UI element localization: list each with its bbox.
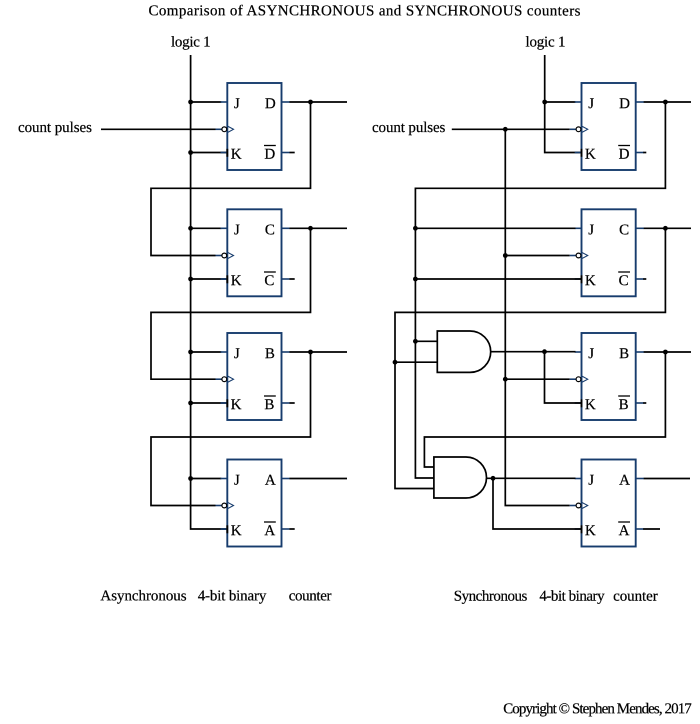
wire AND1 output to J of FF3 (right) <box>491 351 576 353</box>
wire feedback D output to FF2 clock (ripple) <box>151 102 311 256</box>
svg-text:A: A <box>264 523 275 539</box>
K terminal tick <box>581 149 583 157</box>
flip-flop FF1-async (JK, output D) <box>216 83 290 170</box>
clock inversion bubble <box>222 377 227 382</box>
wire count-pulses input (right counter) <box>452 128 570 130</box>
clock inversion bubble <box>576 377 581 382</box>
svg-text:K: K <box>585 273 596 289</box>
wire B output row 3 (right) <box>644 351 691 353</box>
junction logic1/K2 (left) <box>188 277 193 282</box>
wire C-bar output stub (right) <box>643 278 646 280</box>
svg-text:B: B <box>265 346 275 362</box>
K terminal tick <box>226 149 228 157</box>
svg-text:logic 1: logic 1 <box>171 35 211 51</box>
AND gate G2 (inputs B, D, C; drives J/K of FF4) <box>434 457 487 498</box>
flip-flop FF3-sync (JK, output B) <box>570 333 644 420</box>
clock edge chevron <box>582 252 588 259</box>
clock inversion bubble <box>576 503 581 508</box>
pin J stub <box>221 351 228 353</box>
wire C bus to AND1 lower input <box>395 361 438 363</box>
K terminal tick <box>226 399 228 407</box>
pin K stub <box>221 528 228 530</box>
svg-text:J: J <box>234 222 240 238</box>
junction clock rail row 3 <box>503 377 508 382</box>
svg-text:K: K <box>585 147 596 163</box>
svg-text:Copyright © Stephen Mendes, 20: Copyright © Stephen Mendes, 2017 <box>503 701 692 717</box>
clock edge chevron <box>227 376 233 383</box>
pin J stub <box>575 351 582 353</box>
pin K stub <box>575 152 582 154</box>
wire J input row 2 (left) <box>191 227 222 229</box>
wire AND2 output branch to K of FF4 <box>493 478 581 529</box>
pin C output stub <box>636 227 644 229</box>
pin J stub <box>575 227 582 229</box>
wire A-bar output stub (right) <box>643 528 660 530</box>
junction logic1/J2 (left) <box>188 226 193 231</box>
junction AND1 out / J3-K3 split <box>542 349 547 354</box>
pin K stub <box>221 152 228 154</box>
wire AND1 output branch to K of FF3 <box>545 352 582 403</box>
wire K input row 3 (left) <box>191 402 227 404</box>
clock edge chevron <box>582 126 588 133</box>
svg-text:logic 1: logic 1 <box>525 35 565 51</box>
svg-text:C: C <box>619 222 629 238</box>
svg-text:C: C <box>619 273 629 289</box>
wire D bus to AND1 upper input <box>415 340 437 342</box>
clock pin stub <box>570 505 577 507</box>
clock inversion bubble <box>222 253 227 258</box>
wire D-output feedback bus (right): down, left, down to AND2 middle input <box>415 102 665 478</box>
pin K stub <box>575 402 582 404</box>
svg-text:Asynchronous: Asynchronous <box>100 588 186 604</box>
svg-text:K: K <box>231 273 242 289</box>
svg-text:J: J <box>588 222 594 238</box>
pin D output stub <box>282 101 290 103</box>
pin J stub <box>221 227 228 229</box>
svg-text:B: B <box>619 346 629 362</box>
junction logic1/J1 (left) <box>188 100 193 105</box>
pin D-bar output stub <box>636 152 644 154</box>
svg-text:counter: counter <box>289 588 332 604</box>
svg-text:K: K <box>231 147 242 163</box>
svg-text:4-bit binary: 4-bit binary <box>539 589 605 605</box>
pin B-bar output stub <box>282 402 290 404</box>
wire K input row 2 (left) <box>191 278 227 280</box>
junction AND2 out / J4-K4 split <box>491 476 496 481</box>
junction C bus / AND1 <box>393 360 398 365</box>
wire logic-1 rail (right counter), bends into K of FF1 <box>545 55 581 153</box>
svg-text:D: D <box>619 147 630 163</box>
title <box>148 3 580 19</box>
wire clock rail (right counter), bends into clock of FF4 <box>505 129 569 505</box>
wire D bus to K of FF2 (right) <box>415 278 581 280</box>
flip-flop FF4-async (JK, output A) <box>216 460 290 547</box>
junction C output (left) <box>308 226 313 231</box>
pin C-bar output stub <box>636 278 644 280</box>
label Synchronous counter caption <box>454 589 658 605</box>
wire count-pulses input (left counter) <box>101 128 216 130</box>
pin K stub <box>221 402 228 404</box>
K terminal tick <box>581 399 583 407</box>
pin K stub <box>575 528 582 530</box>
svg-text:K: K <box>585 397 596 413</box>
wire B output row 3 (left) <box>290 351 348 353</box>
K terminal tick <box>581 275 583 283</box>
wire C-bar output stub (left) <box>290 278 295 280</box>
wire A-bar output stub (left) <box>290 528 295 530</box>
svg-text:A: A <box>619 523 630 539</box>
flip-flop FF1-sync (JK, output D) <box>570 83 644 170</box>
svg-text:K: K <box>231 523 242 539</box>
junction D output (right) <box>663 100 668 105</box>
pin B output stub <box>282 351 290 353</box>
junction D bus / K2 <box>413 277 418 282</box>
wire clock input FF2 (right) <box>505 255 569 257</box>
clock inversion bubble <box>222 503 227 508</box>
pin K stub <box>221 278 228 280</box>
junction logic1/K1 (left) <box>188 150 193 155</box>
junction logic1/J3 (left) <box>188 350 193 355</box>
junction C output (right) <box>663 226 668 231</box>
clock pin stub <box>216 378 223 380</box>
clock pin stub <box>570 128 577 130</box>
pin J stub <box>575 478 582 480</box>
svg-text:count pulses: count pulses <box>18 120 92 136</box>
svg-text:B: B <box>619 397 629 413</box>
flip-flop FF4-sync (JK, output A) <box>570 460 644 547</box>
clock pin stub <box>216 255 223 257</box>
clock inversion bubble <box>576 127 581 132</box>
svg-text:J: J <box>234 473 240 489</box>
wire C-output feedback bus (right): down, left, down to AND2 lower input <box>395 228 665 488</box>
svg-text:B: B <box>264 397 274 413</box>
svg-text:J: J <box>588 346 594 362</box>
wire D-bar output stub (left) <box>290 152 295 154</box>
svg-text:J: J <box>234 96 240 112</box>
K terminal tick <box>581 525 583 533</box>
clock edge chevron <box>227 502 233 509</box>
svg-text:C: C <box>264 273 274 289</box>
junction D bus / J2 <box>413 226 418 231</box>
wire logic-1 rail (left counter), bends into K of FF4 <box>191 55 227 529</box>
wire B-bar output stub (right) <box>643 402 646 404</box>
junction clock rail row 2 <box>503 253 508 258</box>
svg-text:D: D <box>265 96 276 112</box>
wire D output row 1 (right) <box>644 101 691 103</box>
wire D output row 1 (left) <box>290 101 348 103</box>
svg-text:K: K <box>585 523 596 539</box>
pin J stub <box>221 101 228 103</box>
wire A output row 4 (left) <box>290 478 348 480</box>
junction logic1/K3 (left) <box>188 401 193 406</box>
wire D-bar output stub (right) <box>643 152 646 154</box>
wire AND2 output to J of FF4 (right) <box>487 477 576 479</box>
wire B-bar output stub (left) <box>290 402 295 404</box>
K terminal tick <box>226 525 228 533</box>
junction count-pulses/clock rail <box>503 127 508 132</box>
pin A output stub <box>282 478 290 480</box>
pin J stub <box>575 101 582 103</box>
clock pin stub <box>570 255 577 257</box>
clock edge chevron <box>227 126 233 133</box>
node label count pulses (right) <box>372 120 446 136</box>
wire J input row 3 (left) <box>191 351 222 353</box>
pin D output stub <box>636 101 644 103</box>
wire feedback C output to FF3 clock (ripple) <box>151 228 311 379</box>
node label logic 1 (right) <box>525 35 565 51</box>
svg-text:K: K <box>231 397 242 413</box>
svg-text:4-bit binary: 4-bit binary <box>198 588 267 604</box>
label copyright <box>503 701 692 717</box>
svg-text:A: A <box>265 473 276 489</box>
svg-text:D: D <box>619 96 630 112</box>
pin A-bar output stub <box>282 528 290 530</box>
wire C output row 2 (left) <box>290 227 348 229</box>
clock edge chevron <box>582 376 588 383</box>
pin A output stub <box>636 478 644 480</box>
junction logic1/J1 (right) <box>542 100 547 105</box>
junction logic1/J4 (left) <box>188 476 193 481</box>
svg-text:J: J <box>588 96 594 112</box>
svg-text:A: A <box>619 473 630 489</box>
svg-text:D: D <box>264 147 275 163</box>
svg-text:counter: counter <box>613 589 658 605</box>
clock edge chevron <box>227 252 233 259</box>
wire C output row 2 (right) <box>644 227 691 229</box>
svg-text:Synchronous: Synchronous <box>454 589 528 605</box>
svg-text:C: C <box>265 222 275 238</box>
flip-flop FF3-async (JK, output B) <box>216 333 290 420</box>
flip-flop FF2-async (JK, output C) <box>216 209 290 296</box>
wire K input row 1 (left) <box>191 152 227 154</box>
clock pin stub <box>570 378 577 380</box>
pin D-bar output stub <box>282 152 290 154</box>
junction D bus / AND1 <box>413 339 418 344</box>
svg-text:J: J <box>234 346 240 362</box>
pin C-bar output stub <box>282 278 290 280</box>
K terminal tick <box>226 275 228 283</box>
wire J input FF1 (right) <box>545 101 576 103</box>
junction D output (left) <box>308 100 313 105</box>
wire A output row 4 (right) <box>644 478 690 480</box>
pin J stub <box>221 478 228 480</box>
svg-text:Comparison of ASYNCHRONOUS and: Comparison of ASYNCHRONOUS and SYNCHRONO… <box>148 3 580 19</box>
label Asynchronous counter caption <box>100 588 331 604</box>
wire D bus to J of FF2 (right) <box>415 227 575 229</box>
flip-flop FF2-sync (JK, output C) <box>570 209 644 296</box>
node label logic 1 (left) <box>171 35 211 51</box>
junction B output (right) <box>663 350 668 355</box>
junction B output (left) <box>308 350 313 355</box>
clock pin stub <box>216 128 223 130</box>
wire J input row 4 (left) <box>191 478 222 480</box>
wire feedback B output to FF4 clock (ripple) <box>151 352 311 506</box>
svg-text:J: J <box>588 473 594 489</box>
wire B-output feedback to AND2 top input <box>424 352 665 467</box>
pin K stub <box>575 278 582 280</box>
pin C output stub <box>282 227 290 229</box>
svg-text:count pulses: count pulses <box>372 120 446 136</box>
pin B output stub <box>636 351 644 353</box>
clock inversion bubble <box>576 253 581 258</box>
pin B-bar output stub <box>636 402 644 404</box>
clock pin stub <box>216 505 223 507</box>
clock inversion bubble <box>222 127 227 132</box>
AND gate G1 (inputs D, C; drives J/K of FF3) <box>437 331 490 372</box>
clock edge chevron <box>582 502 588 509</box>
wire clock input FF3 (right) <box>505 378 569 380</box>
node label count pulses (left) <box>18 120 92 136</box>
pin A-bar output stub <box>636 528 644 530</box>
wire J input row 1 (left) <box>191 101 222 103</box>
